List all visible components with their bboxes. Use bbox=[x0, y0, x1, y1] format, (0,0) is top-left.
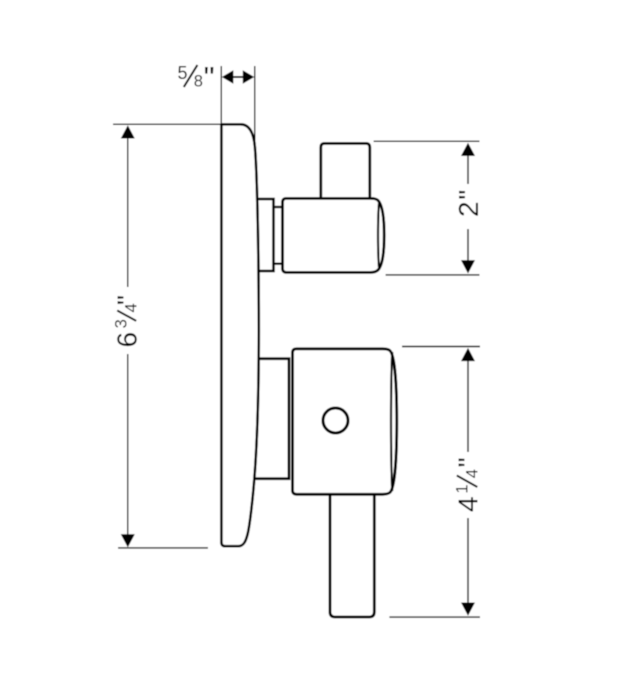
svg-text:4: 4 bbox=[452, 496, 483, 512]
dim 4-1/4: top extension line bbox=[402, 346, 480, 348]
dim 4-1/4: label 4 1/4 inch rotated bbox=[452, 457, 483, 512]
lower handle lever (down) bbox=[330, 480, 374, 617]
dim 5/8: left arrowhead bbox=[222, 70, 234, 84]
upper valve stem bbox=[250, 199, 274, 271]
svg-text:": " bbox=[112, 295, 143, 305]
svg-text:": " bbox=[204, 60, 215, 95]
dim 6-3/4: down arrowhead bbox=[121, 534, 135, 547]
dim 4-1/4: dimension line upper segment bbox=[467, 360, 469, 452]
dim 2: dimension line lower segment bbox=[467, 229, 469, 261]
upper handle body bbox=[283, 198, 385, 272]
svg-text:": " bbox=[452, 457, 483, 467]
lower handle dome inner edge bbox=[391, 352, 392, 491]
svg-text:3: 3 bbox=[113, 319, 131, 328]
dim 6-3/4: bottom extension line bbox=[118, 547, 208, 549]
lower valve stem bbox=[250, 359, 289, 479]
collar between stem and upper handle bbox=[274, 206, 283, 208]
dim 6-3/4: dimension line lower segment bbox=[127, 354, 129, 537]
dim 6-3/4: up arrowhead bbox=[121, 125, 135, 138]
dim 6-3/4: label 6 3/4 inch rotated bbox=[112, 295, 143, 347]
dim 2: top extension line bbox=[374, 140, 480, 142]
dim 6-3/4: dimension line upper segment bbox=[127, 137, 129, 287]
svg-text:5: 5 bbox=[178, 63, 188, 83]
svg-text:2: 2 bbox=[453, 201, 484, 217]
dim 5/8: right extension line bbox=[254, 66, 256, 145]
escutcheon plate bbox=[221, 124, 258, 546]
svg-text:6: 6 bbox=[112, 332, 143, 348]
lower handle body bbox=[293, 349, 397, 495]
dim 5/8: left extension line bbox=[220, 66, 222, 124]
svg-text:": " bbox=[453, 190, 484, 200]
dim 4-1/4: up arrowhead bbox=[461, 348, 475, 361]
dim 5/8: arrow bar bbox=[232, 76, 244, 78]
dim 5/8: label slash bbox=[184, 65, 198, 87]
dim 2: down arrowhead bbox=[461, 260, 475, 273]
dim 2: up arrowhead bbox=[461, 143, 475, 156]
upper handle knob (lever up) bbox=[321, 143, 370, 205]
dim 4-1/4: bottom extension line bbox=[389, 616, 480, 618]
dim 4-1/4: dimension line lower segment bbox=[467, 518, 469, 603]
dim 6-3/4: top extension line bbox=[113, 123, 222, 125]
dim 5/8: right arrowhead bbox=[243, 70, 255, 84]
thermostat button circle bbox=[323, 408, 348, 433]
svg-text:4: 4 bbox=[463, 469, 481, 478]
upper handle dome inner edge bbox=[378, 201, 379, 269]
dim 4-1/4: down arrowhead bbox=[461, 603, 475, 616]
svg-text:8: 8 bbox=[194, 72, 203, 90]
svg-text:1: 1 bbox=[453, 484, 471, 493]
dim 2: dimension line upper segment bbox=[467, 155, 469, 184]
dim 2: bottom extension line bbox=[386, 274, 480, 276]
dim 2: label 2 inch rotated bbox=[453, 190, 484, 217]
